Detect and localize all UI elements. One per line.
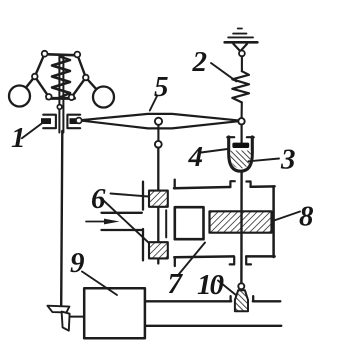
pin lower right [69, 95, 75, 101]
governor ball right [93, 87, 114, 108]
inlet pipe top edge [102, 212, 142, 214]
spool rod middle [157, 206, 159, 243]
spool rod upper [157, 148, 159, 191]
dashpot piston 4 [232, 143, 249, 148]
svg-text:9: 9 [70, 247, 85, 279]
pointer 6 upper [111, 194, 149, 197]
spring 2 support triangle [233, 44, 247, 51]
governor spring [52, 57, 70, 97]
pointer 7 [179, 243, 205, 275]
valve wall left lower [142, 229, 144, 260]
governor spindle right line [62, 56, 64, 133]
seat line left [145, 300, 231, 302]
link lever to spool rod [157, 125, 159, 141]
link upper left arm [35, 54, 45, 77]
inlet arrow [86, 221, 105, 223]
pointer 2 [211, 63, 236, 81]
wire spring to lever [241, 102, 243, 118]
inlet pipe bottom edge [102, 229, 142, 231]
dashpot cup right cap [247, 136, 254, 138]
dashpot hatch fill [230, 151, 251, 169]
link right to sleeve [72, 78, 86, 98]
pointer 9 [82, 272, 117, 296]
governor ball left [9, 86, 30, 107]
svg-text:2: 2 [192, 46, 208, 78]
cylinder bottom gap right lip [246, 257, 251, 265]
cylinder top gap right lip [246, 182, 250, 187]
pilot valve plug 10 [235, 290, 248, 311]
pin lever left tip [76, 118, 82, 124]
sleeve right bracket [67, 115, 80, 129]
svg-text:7: 7 [168, 268, 184, 300]
pointer 8 [274, 212, 300, 221]
rod lever to dashpot piston [241, 125, 243, 143]
pin lever right [238, 118, 244, 124]
pin spring top [239, 51, 245, 57]
pin mid right [83, 75, 89, 81]
pointer 6 lower [103, 200, 149, 243]
pointer 3 [249, 159, 280, 162]
svg-text:8: 8 [299, 201, 314, 233]
wire support to spring [241, 56, 243, 71]
link upper right arm [77, 55, 86, 78]
svg-text:5: 5 [154, 71, 169, 103]
spring 2 support main line [225, 41, 258, 44]
pin lower left [46, 94, 52, 100]
wire flag to box [70, 316, 85, 318]
spring 2 support line 2 [233, 33, 246, 35]
pin lever middle [155, 118, 162, 125]
spool land lower [149, 242, 168, 258]
valve wall right [165, 210, 167, 237]
cylinder top gap left lip [230, 181, 234, 187]
lever 5 [79, 114, 242, 128]
pointer 4 [201, 149, 228, 153]
sleeve left bracket [43, 115, 56, 129]
dashpot cup left cap [227, 136, 234, 138]
cylinder top wall left segment [174, 187, 230, 188]
rod dashpot to pilot valve [240, 172, 243, 283]
cylinder bottom-left corner tick [174, 257, 176, 266]
link left arm to ball [20, 77, 35, 96]
sleeve left block [41, 118, 51, 124]
seat tick right [252, 296, 254, 301]
svg-text:4: 4 [188, 141, 204, 173]
spring 2 support line 3 [228, 36, 253, 38]
port square [175, 207, 204, 239]
pointer 10 [218, 281, 237, 296]
flag hanging blade [62, 312, 70, 331]
spring 2 support dash [238, 28, 242, 30]
cylinder right wall [272, 186, 275, 257]
cylinder bottom wall left segment [174, 255, 234, 258]
pin spool link [155, 141, 162, 148]
svg-text:10: 10 [197, 269, 224, 301]
cylinder top wall right segment [251, 185, 275, 188]
pin mid left [32, 74, 38, 80]
servo piston 8 [210, 211, 272, 232]
main vertical rod [61, 131, 62, 305]
seat tick left [229, 296, 231, 301]
flag trapezoid [47, 306, 69, 313]
link left to sleeve [35, 77, 49, 97]
governor bottom bar [47, 97, 75, 100]
cylinder bottom wall right segment [246, 255, 274, 258]
dashpot cup body [229, 137, 253, 171]
governor spindle left line [58, 55, 60, 133]
pointer 1 [22, 121, 45, 138]
pointer 5 [150, 96, 157, 111]
spool rod lower stub [157, 258, 159, 264]
spool land upper [149, 191, 168, 207]
svg-text:6: 6 [91, 183, 106, 215]
cylinder bottom gap left lip [230, 257, 235, 265]
svg-text:3: 3 [280, 144, 296, 176]
spring 2 [232, 71, 249, 102]
sleeve right block [70, 118, 78, 124]
pin pilot valve [238, 283, 244, 289]
svg-text:1: 1 [11, 122, 26, 154]
governor crossbar [44, 54, 79, 55]
pin top left [42, 51, 48, 57]
valve wall left upper [142, 182, 144, 210]
pin top right [74, 52, 80, 58]
box 9 [84, 288, 145, 338]
link right arm to ball [86, 78, 102, 96]
bottom pipe line [145, 325, 281, 327]
cylinder top-left corner tick [174, 180, 176, 189]
pin on spindle [57, 105, 62, 110]
seat line right [253, 300, 280, 302]
